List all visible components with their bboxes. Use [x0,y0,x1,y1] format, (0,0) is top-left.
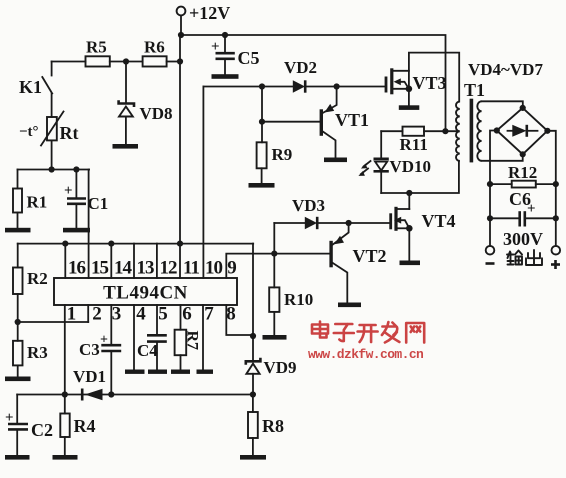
wire secondary top to bridge [482,101,523,108]
transformer T1 primary winding [456,102,460,162]
wire rail right end down VD9 branch [252,244,254,361]
node dot bridge top [520,105,526,111]
svg-text:R1: R1 [27,193,48,212]
svg-text:VT4: VT4 [422,211,456,231]
node dot rail left [178,32,184,38]
resistor R1 [13,170,47,229]
node dot VT2 emitter [346,220,352,226]
wire node to pin 15 [88,170,90,279]
wire VD2 anode line [203,86,292,88]
svg-text:R9: R9 [272,145,293,164]
ground C5 [212,74,239,79]
svg-text:+: + [64,183,73,199]
node dot R2/R3 junction [15,319,21,325]
resistor R3 [13,322,48,377]
wire loop bottom to T1 primary bottom [381,161,459,193]
transformer T1 core [470,99,474,163]
label output (shu) [507,251,522,265]
wire VT4 drain up [408,193,410,209]
pin 5 wire and capacitor C4 [137,305,167,370]
resistor R12 [490,163,556,188]
wire rail above IC [18,243,254,245]
svg-text:10: 10 [205,258,223,279]
zener diode VD9 [246,358,297,395]
ground C1 [63,228,90,233]
wire VD2 node down to pin 10 [202,87,204,279]
svg-text:300V: 300V [503,229,543,249]
ground R9 [249,183,275,188]
diode VD2 [284,58,317,93]
node dot C5 tap [222,32,228,38]
svg-text:15: 15 [91,258,109,279]
svg-text:3: 3 [112,304,122,325]
zener diode VD8 [119,62,173,146]
node dot VT4 drain [406,190,412,196]
svg-text:R8: R8 [262,416,284,436]
node dot R10 top [271,251,277,257]
node dot R9 top [259,83,265,89]
pin 3 wire to C3 [110,305,112,345]
svg-text:VD8: VD8 [140,104,173,123]
thermistor Rt [19,94,79,146]
wire R5 to R6 [110,61,143,63]
pin 4 wire to ground [133,305,135,370]
svg-text:R2: R2 [27,269,48,288]
svg-text:−t°: −t° [19,124,39,140]
MOSFET VT4 [389,207,455,232]
node dot R6 right [177,58,183,64]
wire VD3 corner to base node [273,223,275,254]
capacitor C1 [64,170,108,229]
ground pin 6 [171,370,190,374]
svg-text:R5: R5 [86,38,107,57]
svg-text:TL494CN: TL494CN [103,283,188,304]
wire +12V top rail [181,35,446,131]
svg-text:C4: C4 [137,341,158,360]
resistor R2 [13,244,48,322]
svg-text:2: 2 [92,304,102,325]
svg-text:C1: C1 [88,194,109,213]
watermark char kai [358,325,378,342]
watermark char fa [382,322,400,343]
resistor R9 [257,122,293,184]
ground R1 [5,228,31,233]
node dot pin14 rail [108,241,114,247]
resistor R8 [248,395,284,456]
node dot VT1 emitter [334,83,340,89]
op-amp U1 TL494CN body [54,278,237,305]
svg-text:T1: T1 [464,80,485,100]
node dot pin11 rail [177,241,183,247]
svg-text:VT1: VT1 [335,110,369,130]
svg-text:www.dzkfw.com.cn: www.dzkfw.com.cn [308,347,424,362]
svg-text:7: 7 [204,304,214,325]
wire R6 to +12V line [167,61,180,63]
svg-text:VD2: VD2 [284,58,317,77]
wire VT3 drain to T1 primary top [409,53,459,102]
svg-text:R3: R3 [27,343,48,362]
ground VT1 [324,158,347,163]
node dot T1 center tap [442,128,448,134]
wire Rt to node [51,140,53,169]
pin 1 wire down to VD1 node [64,305,66,395]
svg-text:5: 5 [158,304,168,325]
svg-text:C2: C2 [31,420,53,440]
wire terminal to +12V rail [180,15,182,35]
pin 14 wire [110,244,112,278]
node dot C3 bottom [108,391,114,397]
svg-text:14: 14 [114,258,133,279]
svg-text:13: 13 [137,258,155,279]
node dot R12 left [487,181,493,187]
resistor R4 [60,395,95,456]
MOSFET VT3 [385,68,447,94]
svg-text:11: 11 [183,258,199,279]
wire R1/C1 node [18,169,90,171]
node dot bridge bottom [520,151,526,157]
ground C2 [5,455,30,460]
svg-text:R11: R11 [400,135,428,154]
watermark char zi [334,324,354,341]
diode VD1 [73,367,106,401]
label output (chu) [526,250,542,265]
wire K1 top to R5 [52,61,86,63]
svg-text:8: 8 [226,304,236,325]
svg-text:R7: R7 [184,331,201,351]
transistor VT2 [329,223,386,303]
svg-text:6: 6 [182,304,192,325]
wire VD2 to VT3 gate [305,86,385,88]
pin 6 wire and resistor R7 [175,305,201,370]
pin 2 wire [87,305,89,322]
ground pin 4 [125,370,145,374]
svg-text:VD10: VD10 [390,157,432,176]
svg-text:VD1: VD1 [73,367,106,386]
wire secondary bottom to bridge [482,154,523,161]
svg-text:1: 1 [67,304,77,325]
svg-text:C3: C3 [79,340,100,359]
svg-text:K1: K1 [19,77,42,97]
svg-text:R12: R12 [508,163,537,182]
wire R2/R3 junction to pins 1,2 [18,321,89,323]
svg-text:VT3: VT3 [413,73,447,93]
wire bridge right to plus rail [547,131,555,246]
LED VD10 [358,131,431,193]
svg-text:C6: C6 [509,189,531,209]
ground R8 [240,455,266,460]
ground pin 5 [148,370,167,374]
svg-text:VT2: VT2 [353,246,387,266]
bridge inner diode [508,125,538,137]
wire bridge left to minus rail [490,131,497,246]
node dot C6 right [553,215,559,221]
wire +12V vertical down to pin 11 [179,35,181,278]
svg-text:16: 16 [68,258,86,279]
pin numbers top row [68,258,236,279]
bridge rectifier VD4-VD7 diamond [497,108,548,154]
wire VD3 to VT4 gate [317,222,389,224]
+12V supply terminal [177,3,231,23]
node dot Rt bottom [49,166,55,172]
ground VT3 [399,105,420,110]
svg-text:12: 12 [160,258,178,279]
pin 13 wire [133,244,135,278]
ground VT2 [338,303,361,308]
wire VD3 anode line [274,222,305,224]
ground pin 7 [197,370,214,374]
capacitor C3 [79,333,121,395]
node dot R4 top [62,391,68,397]
capacitor C2 [5,395,53,456]
diode VD3 [292,196,325,229]
pin numbers bottom row [67,304,236,325]
svg-text:+: + [211,39,220,55]
svg-text:+12V: +12V [189,3,230,23]
pin 16 wire [64,244,66,278]
pin 12 wire [156,244,158,278]
wire pin 9 to VT2 base [226,254,329,278]
ground R3 [5,377,31,382]
transistor VT1 [320,87,369,159]
svg-text:C5: C5 [238,48,260,68]
resistor R10 [269,254,313,336]
ground VT4 [400,261,421,266]
ground VD8 [113,144,139,149]
output terminal plus [551,246,560,269]
resistor R6 [143,38,167,67]
node dot bridge left [494,127,500,133]
transformer T1 secondary winding [477,101,481,161]
node dot C1 top [73,166,79,172]
ground R4 [53,455,78,460]
svg-text:4: 4 [136,304,146,325]
node dot VD9 bottom [250,391,256,397]
node dot VD8 tap [123,58,129,64]
svg-text:R4: R4 [74,416,96,436]
svg-text:+: + [100,333,108,348]
ground R10 [263,335,287,340]
capacitor C6 [490,189,556,227]
node dot bridge right [544,128,550,134]
svg-text:VD9: VD9 [264,358,297,377]
svg-text:9: 9 [227,258,236,279]
pin 8 wire to VD9 rail [226,305,253,335]
wire base node to VT1 [262,121,320,123]
node dot pin 8 junction [250,333,256,339]
svg-text:+: + [5,410,14,426]
watermark char wang [406,323,424,343]
node dot C6 left [487,215,493,221]
node dot VT1 base [259,119,265,125]
resistor R11 [381,127,457,154]
svg-text:VD3: VD3 [292,196,325,215]
output terminal minus [486,246,495,264]
watermark char dian [312,322,328,338]
node dot R12 right [553,181,559,187]
resistor R5 [86,38,110,67]
node dot pin16 rail [62,241,68,247]
switch K1 [19,62,52,98]
wire VT4 source to ground [408,228,410,261]
capacitor C5 [211,35,260,75]
wire down to VT1 base node [261,87,263,122]
svg-text:R10: R10 [284,290,313,309]
svg-text:VD4~VD7: VD4~VD7 [468,60,543,79]
wire VT3 source to ground [408,89,410,106]
pin 7 wire to ground [202,305,204,370]
wire VD1 bottom rail [17,394,253,396]
svg-text:R6: R6 [144,38,165,57]
svg-text:Rt: Rt [60,123,79,143]
